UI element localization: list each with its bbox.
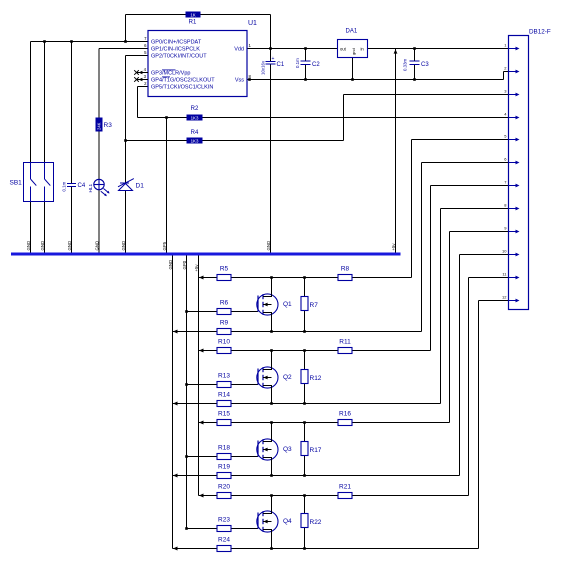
switch SB1 body xyxy=(24,163,54,202)
svg-text:GND: GND xyxy=(67,241,72,251)
junction dots channel Q3 xyxy=(270,421,273,424)
svg-text:out: out xyxy=(340,46,347,51)
wire gate row (R6) xyxy=(187,311,218,313)
Q2 gate bar xyxy=(257,369,259,385)
wire source row (R9) xyxy=(173,331,218,333)
wire connector pin 12 to Q4 source node xyxy=(479,300,509,302)
svg-text:GND: GND xyxy=(95,241,100,251)
junction dot Vss/DA1 gnd xyxy=(351,78,354,81)
transistor Q1 MOSFET circle xyxy=(257,294,278,315)
svg-text:+: + xyxy=(272,56,275,62)
connector pin 12 stub and arrow xyxy=(509,300,516,302)
svg-text:R8: R8 xyxy=(341,266,350,273)
wire R7 vertical leads xyxy=(304,278,306,297)
resistor R7 (vertical) xyxy=(301,297,308,311)
connector pin 7 stub and arrow xyxy=(509,185,516,187)
svg-text:GP0/CIN+/ICSPDAT: GP0/CIN+/ICSPDAT xyxy=(151,40,202,46)
junction dot Vdd/C1/R1 xyxy=(269,47,272,50)
svg-text:gnd: gnd xyxy=(351,48,356,55)
svg-text:GP5: GP5 xyxy=(162,241,167,250)
wire gate row (R13) xyxy=(187,384,218,386)
junction dot GP5 row bus entry xyxy=(165,116,168,119)
svg-text:GND: GND xyxy=(40,241,45,251)
arrow junction +5v drop xyxy=(394,49,398,53)
resistor R23 (gate) xyxy=(217,526,231,532)
svg-text:R20: R20 xyxy=(218,484,230,491)
wire Vss GND row (U1 pin 8 to connector pin 2) xyxy=(247,79,504,81)
svg-text:GP0: GP0 xyxy=(182,260,187,269)
svg-text:Q1: Q1 xyxy=(283,301,292,308)
Q3 gate bar xyxy=(257,441,259,457)
svg-text:+5v: +5v xyxy=(391,243,396,251)
resistor R10 (pull-up to +5v) xyxy=(217,348,231,354)
svg-text:R11: R11 xyxy=(339,339,351,346)
arrow R15 to +5v feeder xyxy=(199,421,204,425)
resistor R18 (gate) xyxy=(217,454,231,460)
svg-text:1K: 1K xyxy=(190,12,195,17)
Q3 drain stub xyxy=(263,423,272,442)
svg-text:R21: R21 xyxy=(339,484,351,491)
connector pin 1 stub and arrow xyxy=(509,48,516,50)
arrow R10 to +5v feeder xyxy=(199,349,204,353)
arrow R5 to +5v feeder xyxy=(199,276,204,280)
wire SB1 pole 2 vertical xyxy=(44,42,46,164)
svg-text:R15: R15 xyxy=(218,411,230,418)
svg-text:10: 10 xyxy=(502,249,507,254)
wire R17 vertical leads xyxy=(304,423,306,442)
Q2 source stub xyxy=(263,386,272,404)
resistor R15 (pull-up to +5v) xyxy=(217,420,231,426)
wire +5v bus entry drop xyxy=(395,49,397,255)
resistor R1 (filled value box) xyxy=(186,12,201,18)
SB1 pole 1 contacts and lever xyxy=(30,163,32,201)
wire source row (R24) xyxy=(173,548,218,550)
wire connector pin 7 to Q2 drain node xyxy=(431,185,509,187)
resistor R14 (source) xyxy=(217,401,231,407)
svg-text:0.1m: 0.1m xyxy=(62,181,67,191)
wire R22 vertical leads xyxy=(304,496,306,514)
wire connector pin 9 to Q3 drain node xyxy=(450,231,509,233)
svg-text:0.33m: 0.33m xyxy=(403,58,408,71)
svg-text:R5: R5 xyxy=(220,266,229,273)
svg-text:0.1m: 0.1m xyxy=(295,58,300,68)
capacitor C4 plates xyxy=(67,184,76,187)
svg-text:GND: GND xyxy=(266,241,271,251)
resistor R6 (gate) xyxy=(217,309,231,315)
Q1 channel bar segments xyxy=(262,294,264,299)
wire connector pin 8 to Q2 source node xyxy=(441,208,509,210)
svg-text:10x16v: 10x16v xyxy=(261,60,266,75)
connector pin 2 stub and arrow xyxy=(509,71,516,73)
wire GP0 gate feeder line below bus xyxy=(186,255,188,529)
junction dots channel Q4 xyxy=(270,494,273,497)
wire D1 branch vertical xyxy=(125,56,127,184)
resistor R21 (to connector) xyxy=(338,493,352,499)
svg-text:12: 12 xyxy=(502,295,507,300)
wire R2 row to connector pin 4 xyxy=(203,117,509,119)
resistor R8 (to connector) xyxy=(338,275,352,281)
Q1 gate bar xyxy=(257,296,259,312)
arrow R20 to +5v feeder xyxy=(199,494,204,498)
wire GP2 row (pin 5 to D1) xyxy=(126,55,149,57)
Q3 body stub with arrow xyxy=(263,449,272,451)
wire gate row (R18) xyxy=(187,456,218,458)
svg-text:R3: R3 xyxy=(104,122,113,129)
resistor R12 (vertical) xyxy=(301,370,308,384)
svg-text:GP2/T0CKI/INT/COUT: GP2/T0CKI/INT/COUT xyxy=(151,54,207,60)
svg-text:D1: D1 xyxy=(136,183,145,190)
wire source row (R14) xyxy=(173,403,218,405)
Q1 source stub xyxy=(263,313,272,332)
wire connector pin 5 to Q1 drain node xyxy=(412,139,509,141)
resistor R13 (gate) xyxy=(217,382,231,388)
resistor R4 (filled value box) xyxy=(187,138,203,144)
wire GND feeder line below bus xyxy=(172,255,174,549)
wire R3 / lamp HL1 vertical branch xyxy=(98,49,100,118)
junction dot Vss pin xyxy=(248,78,251,81)
connector pin 3 stub and arrow xyxy=(509,94,516,96)
Q2 body stub with arrow xyxy=(263,377,272,379)
wire connector pin 11 to Q4 drain node xyxy=(469,277,509,279)
Q1 body stub with arrow xyxy=(263,304,272,306)
resistor R9 (source) xyxy=(217,329,231,335)
wire connector pin 6 to Q1 source node xyxy=(422,162,509,164)
svg-text:C1: C1 xyxy=(277,62,285,68)
wire +12V row (DA1 in to connector pin 1) xyxy=(368,48,509,50)
junction dot GP2/R4 tee xyxy=(124,139,127,142)
connector pin 8 stub and arrow xyxy=(509,208,516,210)
svg-text:R1: R1 xyxy=(189,20,197,26)
Q4 source stub xyxy=(263,530,272,549)
resistor R20 (pull-up to +5v) xyxy=(217,493,231,499)
Q3 channel bar segments xyxy=(262,439,264,444)
svg-text:24K: 24K xyxy=(97,122,102,130)
Q4 drain stub xyxy=(263,496,272,514)
op IC U1 body (PIC12F675) xyxy=(148,31,247,97)
svg-text:R13: R13 xyxy=(218,373,230,380)
svg-text:R4: R4 xyxy=(191,130,199,136)
svg-text:R7: R7 xyxy=(310,302,319,309)
junction dot GP0/C4 xyxy=(70,40,73,43)
voltage regulator DA1 body xyxy=(338,40,368,58)
svg-text:R16: R16 xyxy=(339,411,351,418)
svg-text:R6: R6 xyxy=(220,300,229,307)
capacitor C3 plates xyxy=(410,61,420,65)
wire GP5 jog (pin 2 down to R2 row) xyxy=(138,86,149,88)
junction dot GP0/R1 xyxy=(124,40,127,43)
arrow R24 to GND feeder xyxy=(173,547,178,551)
wire C4 branch vertical xyxy=(71,42,73,184)
svg-text:R14: R14 xyxy=(218,392,230,399)
transistor Q4 MOSFET circle xyxy=(257,511,278,532)
Q2 channel bar segments xyxy=(262,367,264,372)
svg-text:SB1: SB1 xyxy=(10,180,23,187)
junction dot +12/C3 xyxy=(413,47,416,50)
svg-text:1K3: 1K3 xyxy=(191,115,199,120)
svg-text:R10: R10 xyxy=(218,339,230,346)
resistor R3 (vertical filled value box) xyxy=(96,118,103,132)
Q4 gate bar xyxy=(257,513,259,529)
Q2 drain stub xyxy=(263,351,272,370)
wire C1 branch vertical (R1 right end down through C1 to GND bus) xyxy=(270,15,272,62)
wire R4 row from GP2 branch xyxy=(126,140,187,142)
svg-text:1K3: 1K3 xyxy=(191,138,199,143)
svg-text:DB12-F: DB12-F xyxy=(529,28,551,35)
no-connect X and arrow on pin 3 GP4 xyxy=(139,78,143,81)
svg-text:R2: R2 xyxy=(191,106,199,112)
svg-text:Vss: Vss xyxy=(235,78,244,84)
wire GP0 row (pin 7 to SB1) xyxy=(31,41,149,43)
junction dots channel Q2 xyxy=(270,349,273,352)
svg-text:Q3: Q3 xyxy=(283,446,292,453)
wire R4 jog up to connector pin 3 xyxy=(343,95,345,141)
svg-text:R22: R22 xyxy=(310,519,322,526)
wire GP5 net bus entry drop xyxy=(166,118,168,255)
junction dot Vss/C2 xyxy=(304,78,307,81)
zener diode D1 xyxy=(119,184,133,191)
svg-text:Vdd: Vdd xyxy=(234,47,244,53)
junction dot GP0/SB1 pole2 xyxy=(43,40,46,43)
resistor R5 (pull-up to +5v) xyxy=(217,275,231,281)
junction dot Vss/C3 xyxy=(413,78,416,81)
indicator LED HL1 (circle with cross and emission arrows) xyxy=(94,179,104,189)
wire +5v feeder line below bus xyxy=(198,255,200,496)
connector pin 11 stub and arrow xyxy=(509,277,516,279)
connector pin 6 stub and arrow xyxy=(509,162,516,164)
Q3 source stub xyxy=(263,458,272,476)
wire drain node row (R20/R21) xyxy=(199,495,218,497)
svg-text:C4: C4 xyxy=(78,183,86,189)
transistor Q3 MOSFET circle xyxy=(257,439,278,460)
wire C2 branch xyxy=(305,49,307,62)
wire SB1 pole 1 vertical xyxy=(30,42,32,164)
wire GP1 row (pin 6 to R3) xyxy=(99,48,148,50)
connector DB12-F body xyxy=(509,36,529,310)
junction dots channel Q1 xyxy=(270,276,273,279)
no-connect X and arrow on pin 4 GP3 xyxy=(136,73,148,80)
wire gate row (R23) xyxy=(187,528,218,530)
svg-text:Q4: Q4 xyxy=(283,518,292,525)
svg-text:Q2: Q2 xyxy=(283,374,292,381)
Q1 drain stub xyxy=(263,278,272,297)
wire R1 top row xyxy=(126,14,186,16)
wire R12 vertical leads xyxy=(304,351,306,370)
wire C3 branch xyxy=(414,49,416,62)
transistor Q2 MOSFET circle xyxy=(257,367,278,388)
svg-text:R12: R12 xyxy=(310,375,322,382)
connector pin 10 stub and arrow xyxy=(509,254,516,256)
resistor R2 (filled value box) xyxy=(187,115,203,121)
connector pin 4 stub and arrow xyxy=(509,117,516,119)
GND bus (thick blue net bus) xyxy=(11,253,401,256)
svg-text:GND: GND xyxy=(26,241,31,251)
wire DA1 gnd stub xyxy=(352,58,354,80)
resistor R17 (vertical) xyxy=(301,442,308,456)
svg-text:HL1: HL1 xyxy=(88,184,93,193)
junction dot Vdd/C2 xyxy=(304,47,307,50)
wire R1 left vertical to GP0 xyxy=(125,15,127,42)
svg-text:R17: R17 xyxy=(310,447,322,454)
wire drain node row (R10/R11) xyxy=(199,350,218,352)
Q4 channel bar segments xyxy=(262,511,264,516)
svg-text:DA1: DA1 xyxy=(346,29,358,35)
wire Vdd row (U1 pin 1 to DA1 out) xyxy=(247,48,338,50)
svg-text:GND: GND xyxy=(168,260,173,270)
resistor R11 (to connector) xyxy=(338,348,352,354)
svg-text:GND: GND xyxy=(121,241,126,251)
svg-text:U1: U1 xyxy=(248,20,257,27)
svg-text:R19: R19 xyxy=(218,464,230,471)
capacitor C1 polarized plates xyxy=(266,62,276,65)
capacitor C2 plates xyxy=(301,61,311,65)
wire drain node row (R5/R8) xyxy=(199,277,218,279)
svg-text:R23: R23 xyxy=(218,517,230,524)
resistor R16 (to connector) xyxy=(338,420,352,426)
svg-text:R9: R9 xyxy=(220,320,229,327)
SB1 pole 2 contacts and lever xyxy=(44,163,46,201)
resistor R19 (source) xyxy=(217,473,231,479)
svg-text:R24: R24 xyxy=(218,537,230,544)
svg-text:R18: R18 xyxy=(218,445,230,452)
svg-text:C2: C2 xyxy=(312,62,320,68)
svg-text:GP5/T1CKI/OSC1/CLKIN: GP5/T1CKI/OSC1/CLKIN xyxy=(151,84,213,90)
Q4 body stub with arrow xyxy=(263,521,272,523)
wire source row (R19) xyxy=(173,475,218,477)
svg-text:GP4/T1G/OSC2/CLKOUT: GP4/T1G/OSC2/CLKOUT xyxy=(151,77,215,83)
arrow R19 to GND feeder xyxy=(173,474,178,478)
svg-text:C3: C3 xyxy=(421,62,429,68)
wire connector pin 10 to Q3 source node xyxy=(460,254,509,256)
resistor R22 (vertical) xyxy=(301,514,308,528)
arrow R9 to GND feeder xyxy=(173,330,178,334)
arrow R14 to GND feeder xyxy=(173,402,178,406)
svg-text:+5v: +5v xyxy=(194,264,199,272)
resistor R24 (source) xyxy=(217,546,231,552)
connector pin 9 stub and arrow xyxy=(509,231,516,233)
svg-text:GP1/CIN-/ICSPCLK: GP1/CIN-/ICSPCLK xyxy=(151,47,200,53)
svg-text:GP3/MCLR/Vpp: GP3/MCLR/Vpp xyxy=(151,70,190,76)
wire drain node row (R15/R16) xyxy=(199,422,218,424)
connector pin 5 stub and arrow xyxy=(509,139,516,141)
